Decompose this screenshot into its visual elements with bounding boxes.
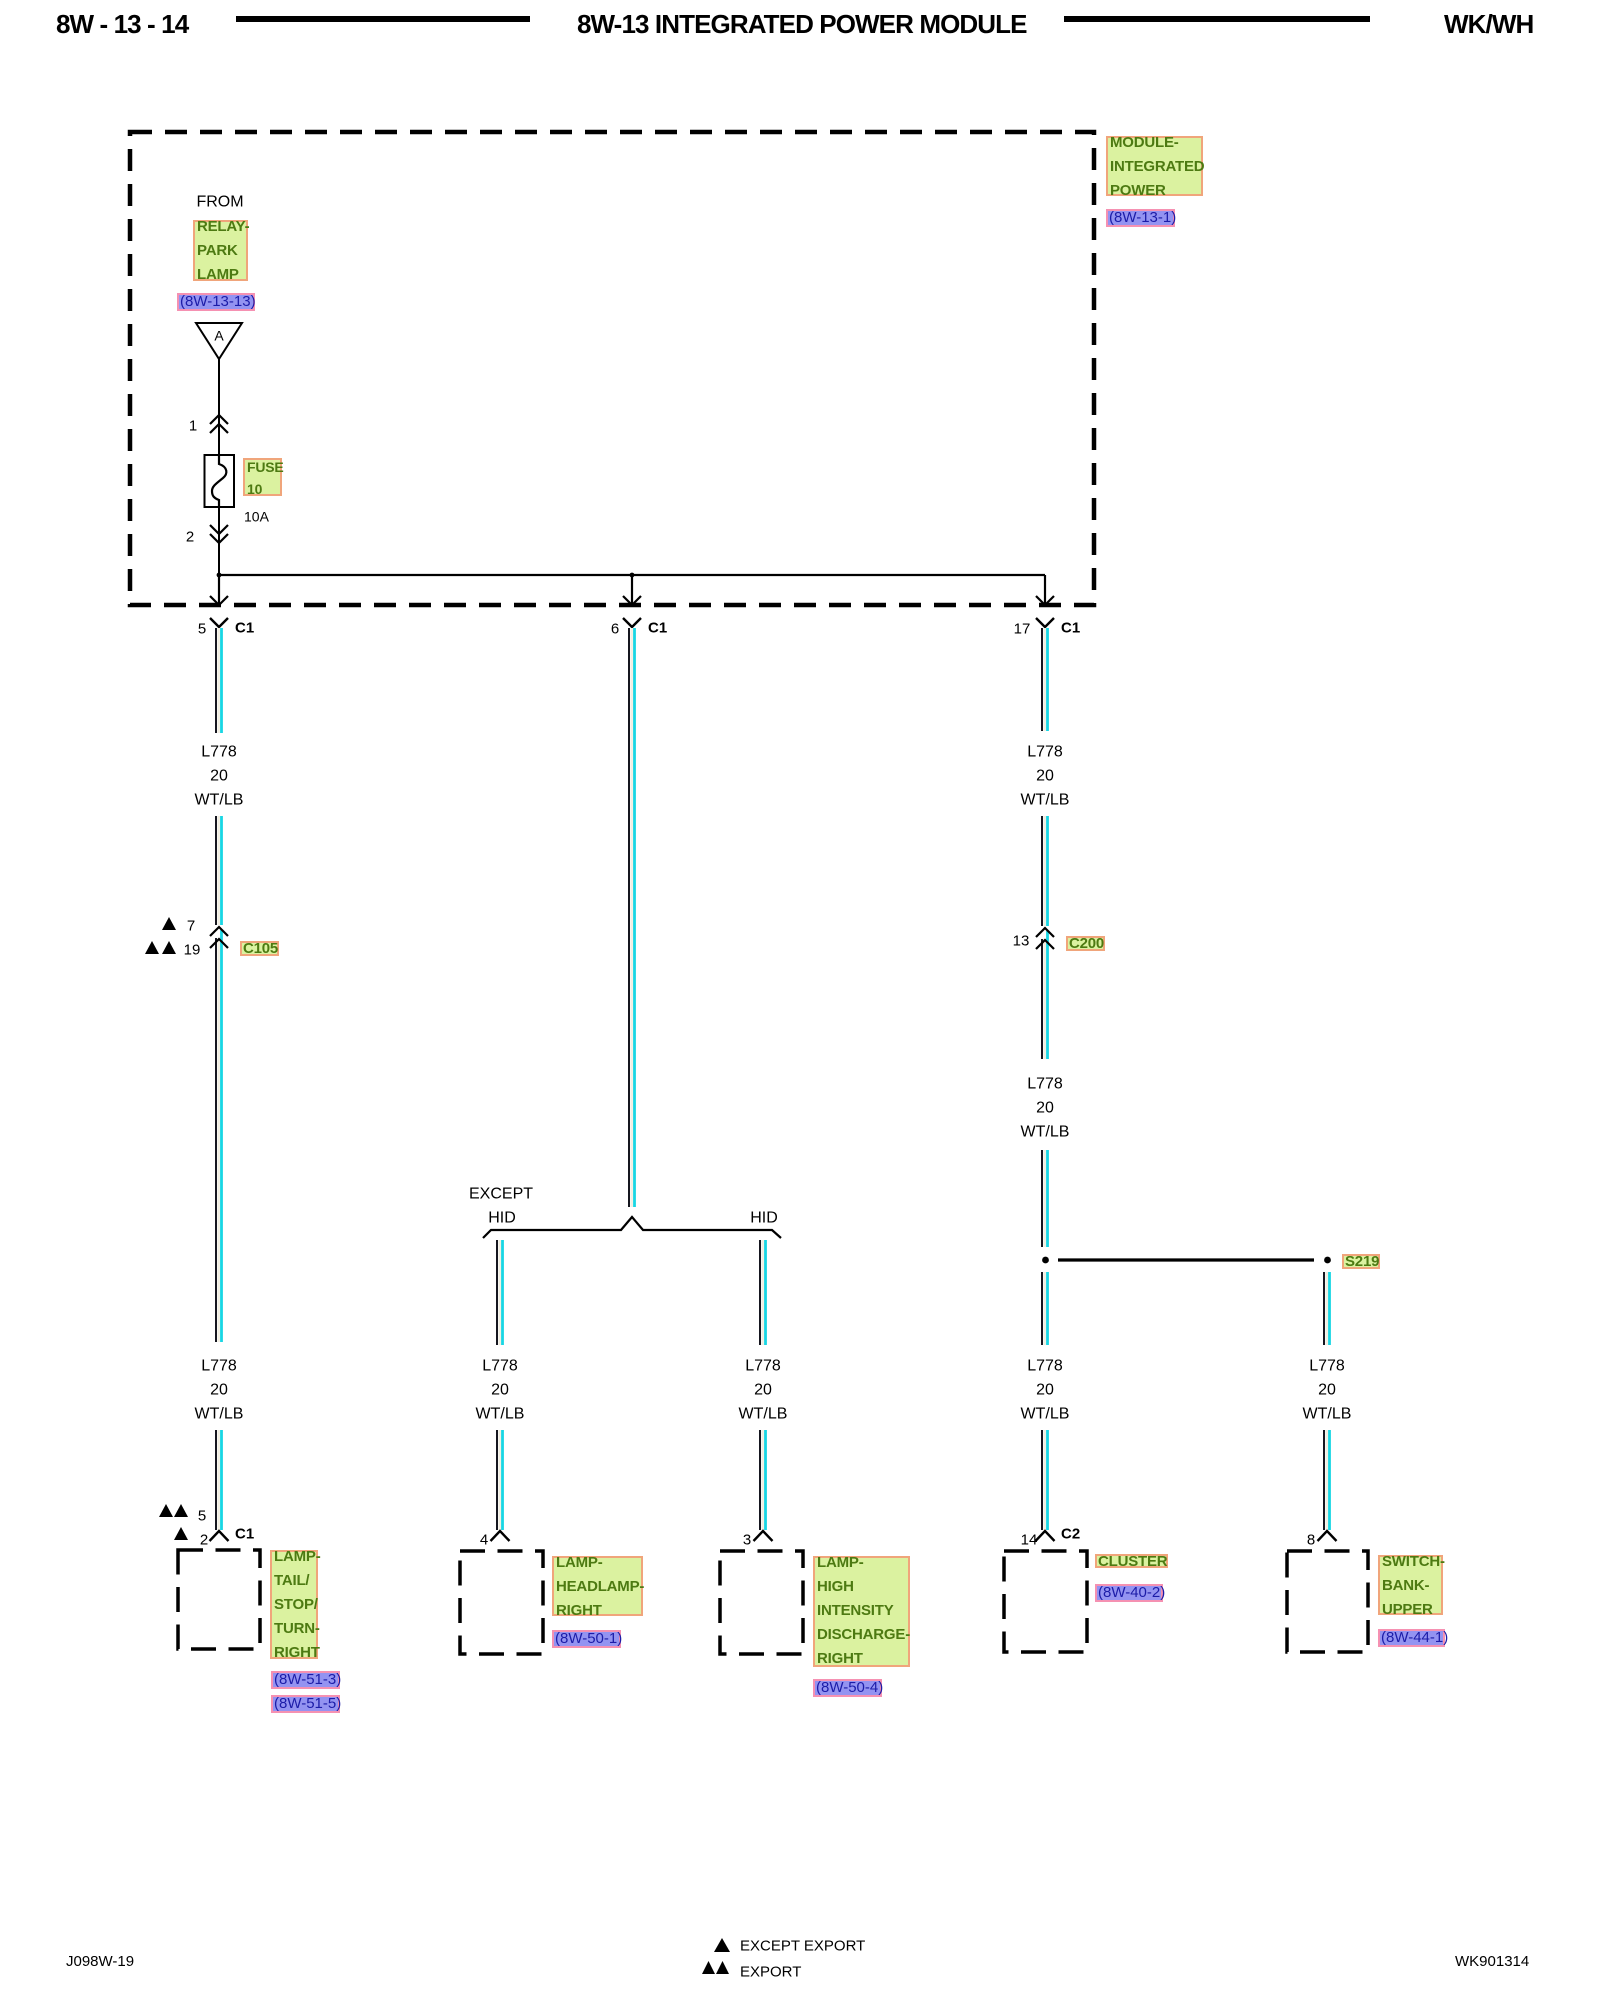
label S219: [1342, 1254, 1380, 1269]
label pin 19: [184, 943, 201, 958]
legend export: [740, 1965, 801, 1980]
wire L778 col3 seg2: [760, 1430, 766, 1530]
fuse F10 body: [205, 455, 235, 507]
lamp-headlamp-right dashed box: [460, 1551, 543, 1654]
header rule left: [236, 16, 530, 22]
wire L778 col1 seg3: [216, 930, 222, 1342]
splice S219 node left: [1042, 1257, 1049, 1264]
label C200: [1066, 936, 1105, 951]
label pin 13: [1013, 934, 1030, 949]
label pin 1: [189, 419, 197, 434]
label 10A: [244, 510, 269, 525]
header title: [577, 11, 1027, 37]
label pin 4 col2: [480, 1533, 488, 1548]
connector C1 pin 6 chevron: [623, 618, 641, 627]
label wire L778 col1 bottom: [201, 1359, 237, 1374]
label pin 2 C1 col1 bottom: [200, 1533, 208, 1548]
label wire L778 col2 bottom: [482, 1359, 518, 1374]
label cluster: [1095, 1554, 1168, 1568]
label pin 2: [186, 530, 194, 545]
header rule right: [1064, 16, 1370, 22]
label (8W-50-4): [813, 1679, 882, 1697]
splice S219 node right: [1324, 1257, 1331, 1264]
connector C1 pin 17 chevron: [1036, 618, 1054, 627]
footer right: [1455, 1954, 1529, 1969]
label wire L778 col4 mid: [1027, 1077, 1063, 1092]
connector pin 3 chevron col3: [754, 1531, 773, 1541]
switch-bank-upper dashed box: [1287, 1551, 1368, 1652]
label pin 8 col5: [1307, 1533, 1315, 1548]
label module-integrated power: [1106, 136, 1203, 196]
label lamp-high intensity discharge-right: [813, 1556, 910, 1667]
label fuse 10: [243, 458, 282, 496]
wire L778 col4 seg3: [1042, 931, 1048, 1059]
legend triangles export: [702, 1961, 729, 1974]
label pin 17 C1: [1014, 622, 1031, 637]
header left page number: [56, 11, 188, 37]
wire L778 col4 seg1: [1042, 628, 1048, 731]
in-line connector C200 chevron pin 13: [1036, 928, 1054, 937]
connector C2 pin 14 chevron col4: [1036, 1531, 1055, 1541]
connector C1 pin 2 chevron col1: [210, 1531, 229, 1541]
cluster dashed box: [1004, 1551, 1087, 1652]
label (8W-44-1): [1378, 1629, 1445, 1647]
wire L778 col4 seg5: [1042, 1272, 1048, 1345]
triangle marker pin 7: [162, 917, 176, 930]
wire L778 col4 seg4: [1042, 1150, 1048, 1247]
wire L778 col1 seg1: [216, 628, 222, 733]
wire L778 col2 seg1: [497, 1240, 503, 1345]
label wire L778 col3 bottom: [745, 1359, 781, 1374]
legend except export: [740, 1939, 865, 1954]
wire fuse to bus: [218, 507, 220, 575]
in-line connector C105 arrow pin 19: [210, 939, 228, 948]
wire L778 col2 seg2: [497, 1430, 503, 1530]
label (8W-51-5): [271, 1695, 340, 1713]
wire L778 col5 seg2: [1324, 1430, 1330, 1530]
wire L778 col5 seg1: [1324, 1272, 1330, 1345]
label (8W-50-1): [552, 1630, 621, 1648]
label pin 7: [187, 919, 195, 934]
label lamp-tail/stop/turn-right: [270, 1550, 318, 1659]
fuse pin 1 chevrons: [210, 415, 228, 433]
bus wire horizontal: [219, 574, 1045, 576]
label pin 14 C2 col4: [1021, 1533, 1038, 1548]
fuse pin 2 chevrons: [210, 525, 228, 543]
connector pin 4 chevron col2: [491, 1531, 510, 1541]
lamp-high-intensity-discharge-right dashed box: [720, 1551, 803, 1654]
label pin 5 C1: [198, 622, 206, 637]
splice split symbol: [483, 1217, 781, 1238]
label lamp-headlamp-right: [552, 1556, 643, 1616]
drop arrow to C1 pin 5: [210, 575, 228, 605]
label wire L778 col1 top: [201, 745, 237, 760]
label pin 6 C1: [611, 622, 619, 637]
triangle markers pin 5 col1: [159, 1504, 188, 1517]
label pin 3 col3: [743, 1533, 751, 1548]
label C105: [240, 941, 279, 956]
triangle marker pin 2 col1: [174, 1527, 188, 1540]
wire L778 center column: [629, 628, 635, 1207]
wire L778 col1 seg2: [216, 816, 222, 925]
wire L778 col4 seg2: [1042, 816, 1048, 926]
label FROM: [196, 195, 243, 210]
in-line connector C105 chevron pin 7: [210, 927, 228, 936]
drop arrow to C1 pin 17: [1036, 575, 1054, 605]
wire from triangle A to fuse: [218, 359, 220, 455]
label A in triangle: [214, 329, 223, 344]
off-page connector triangle A: [196, 323, 242, 359]
label (8W-13-1): [1106, 209, 1175, 227]
module-integrated power dashed box: [130, 132, 1094, 605]
label switch-bank-upper: [1378, 1555, 1443, 1615]
label (8W-51-3): [271, 1671, 340, 1689]
label wire L778 col5 bottom: [1309, 1359, 1345, 1374]
label wire L778 col4 top: [1027, 745, 1063, 760]
label except hid: [469, 1187, 533, 1202]
junction node at pin 6 drop: [630, 573, 635, 578]
label hid: [750, 1211, 778, 1226]
triangle markers pin 19: [145, 941, 176, 954]
in-line connector C200 arrow: [1036, 940, 1054, 949]
legend triangle except export: [714, 1938, 730, 1952]
label wire L778 col4 bottom: [1027, 1359, 1063, 1374]
header right code: [1444, 11, 1533, 37]
label (8W-13-13): [177, 293, 255, 311]
drop arrow to C1 pin 6: [623, 575, 641, 605]
lamp-tail/stop/turn-right dashed box: [178, 1550, 260, 1649]
connector pin 8 chevron col5: [1318, 1531, 1337, 1541]
splice S219 wire: [1058, 1258, 1314, 1261]
wire L778 col4 seg6: [1042, 1430, 1048, 1530]
wire L778 col1 seg4: [216, 1430, 222, 1530]
junction node at pin 5 drop: [217, 573, 222, 578]
label pin 5 col1 bottom: [198, 1509, 206, 1524]
label (8W-40-2): [1095, 1584, 1163, 1602]
connector C1 pin 5 chevron: [210, 618, 228, 627]
label relay-park lamp: [193, 220, 248, 281]
wire L778 col3 seg1: [760, 1240, 766, 1345]
footer left: [66, 1954, 134, 1969]
